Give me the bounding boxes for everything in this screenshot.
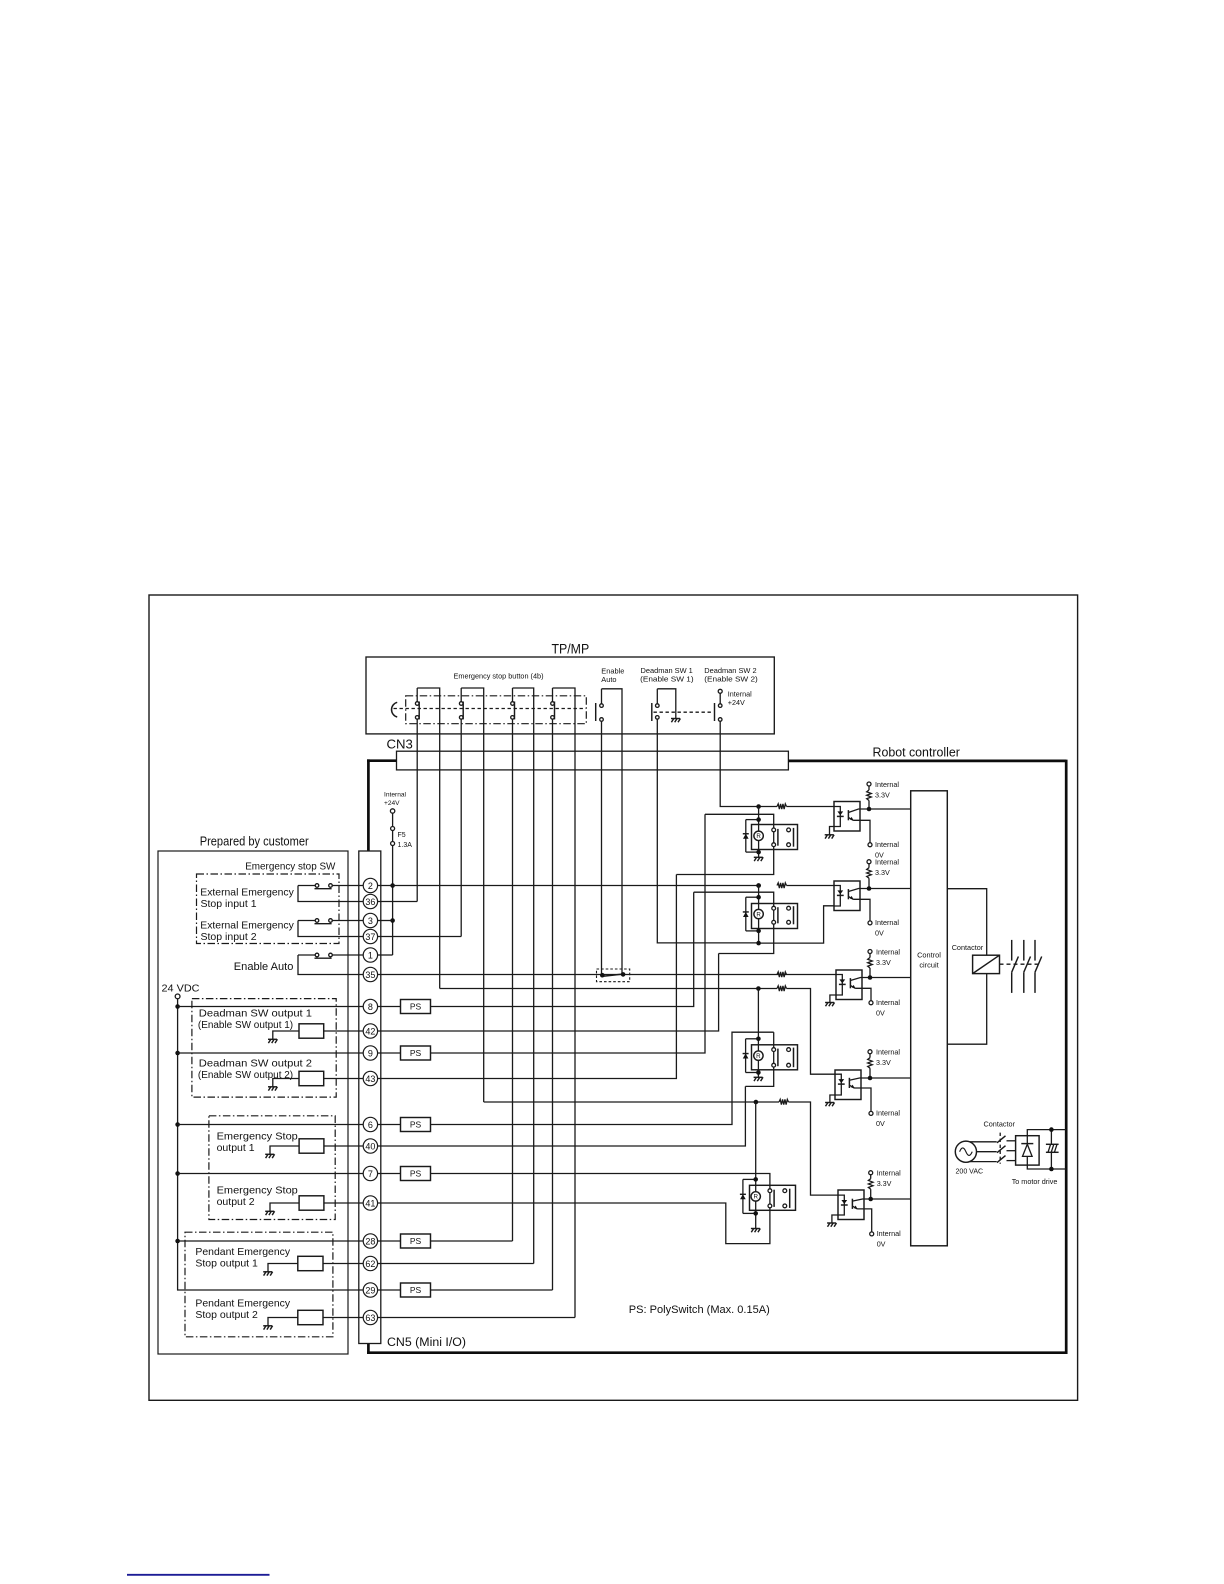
pin 36 (363, 894, 377, 908)
svg-text:35: 35 (365, 970, 375, 980)
svg-text:8: 8 (368, 1002, 373, 1012)
outer figure frame (149, 595, 1078, 1400)
svg-text:Internal: Internal (875, 918, 899, 927)
svg-text:3: 3 (368, 916, 373, 926)
svg-text:1: 1 (368, 950, 373, 960)
wire: U4 (e-stop 1 sense) output to control circuit (870, 1077, 911, 1079)
node Internal 3.3V (U1 (deadman SW2 sense)) (867, 782, 871, 786)
svg-text:PS: PS (410, 1236, 422, 1246)
svg-text:(Enable SW 1): (Enable SW 1) (640, 675, 694, 684)
optocoupler U4 (e-stop 1 sense) (835, 1070, 861, 1100)
svg-text:Pendant Emergency: Pendant Emergency (195, 1246, 290, 1258)
ground (relay K4 coil) (751, 1228, 760, 1230)
wire: pin 29 (after PS) up to e-stop contact 4 (431, 1289, 553, 1291)
load: Emergency Stop output 2 (pin 41) (299, 1196, 324, 1210)
svg-text:24 VDC: 24 VDC (162, 984, 201, 995)
wire: relay K2 contact top to pin 8 column (694, 892, 774, 906)
wire: U3 (enable auto sense) emitter to Internal 0V (855, 988, 871, 1000)
svg-text:Internal: Internal (877, 1169, 901, 1178)
AC source 200 VAC (955, 1141, 976, 1162)
svg-text:36: 36 (365, 897, 375, 907)
pin 9 (363, 1046, 377, 1060)
wire: rail to pin 6 (178, 1124, 364, 1126)
wire: U3 (enable auto sense) output to control circuit (870, 977, 911, 979)
svg-text:1.3A: 1.3A (398, 842, 413, 849)
svg-text:0V: 0V (875, 929, 884, 938)
wire: U1 (deadman SW2 sense) output to control circuit (869, 808, 911, 810)
wire: relay K1 contact bottom to pin 43 column (676, 847, 773, 875)
relay K1 (deadman SW 2) (752, 825, 798, 850)
wire: pin 43 to relay 1 contact bottom (378, 875, 677, 1079)
optocoupler U1 (deadman SW2 sense) (834, 802, 860, 832)
wire: rectifier to motor drive bus (1027, 1130, 1066, 1136)
svg-text:Internal: Internal (876, 1109, 900, 1118)
svg-text:Emergency Stop: Emergency Stop (217, 1185, 298, 1197)
wire: contact 3 bridge (513, 688, 534, 1264)
wire: pin 35 row (enable auto) to opto 3 (378, 974, 836, 976)
svg-text:3.3V: 3.3V (875, 868, 890, 877)
pin 7 (363, 1166, 377, 1180)
svg-text:output 2: output 2 (217, 1196, 255, 1208)
svg-text:29: 29 (365, 1285, 375, 1295)
svg-text:External Emergency: External Emergency (200, 886, 294, 898)
contactor power contacts with AC source (970, 1141, 997, 1143)
mechanical dashed link deadman SW1-SW2 (654, 711, 714, 713)
polyswitch PS (row y=1006.5) (378, 1006, 401, 1008)
pin 6 (363, 1117, 377, 1131)
wire: contact 1 bridge (417, 688, 440, 989)
polyswitch PS (row y=1173.5) (378, 1173, 401, 1175)
wire: pin 62 up to e-stop contact 3 return (378, 1263, 534, 1265)
svg-text:Internal: Internal (384, 792, 407, 799)
load: Deadman SW output 1 (pin 42) (299, 1024, 324, 1038)
wire: U5 (e-stop 2 sense) emitter to Internal 0V (857, 1209, 871, 1232)
svg-text:(Enable SW output 1): (Enable SW output 1) (198, 1020, 293, 1031)
pin 1 (363, 948, 377, 962)
wire: pin 7 (after PS) to relay 4 contact top (431, 1174, 770, 1189)
wire: rail to pin 9 (178, 1052, 364, 1054)
pin 28 (363, 1234, 377, 1248)
wire: pin 9 (after PS) to relay 1 contact top (431, 814, 706, 1053)
wire: U4 (e-stop 1 sense) emitter to Internal 0V (854, 1088, 871, 1111)
svg-text:Contactor: Contactor (984, 1119, 1016, 1128)
svg-text:+24V: +24V (728, 698, 745, 707)
wire: deadman SW2 to relay 1 row (720, 721, 758, 806)
svg-text:3.3V: 3.3V (876, 1058, 891, 1067)
load: Pendant Emergency Stop output 2 (pin 63) (298, 1310, 323, 1324)
wire: opto U5 cathode to ground (832, 1215, 838, 1223)
wire: relay 3 row jog down to opto 4 (787, 989, 836, 1075)
svg-text:Deadman SW output 2: Deadman SW output 2 (199, 1057, 312, 1069)
node Internal 0V (U5 (e-stop 2 sense)) (870, 1232, 874, 1236)
flyback diode (K2 (deadman SW 1)) (746, 896, 759, 898)
svg-text:63: 63 (365, 1313, 375, 1323)
load: Deadman SW output 2 (pin 43) (299, 1071, 324, 1085)
wire: pin 28 (after PS) up to e-stop contact 3 (431, 1240, 513, 1242)
prepared-by-customer box (158, 851, 348, 1354)
connector CN5 strip (359, 851, 381, 1344)
node Internal 3.3V (U2 (deadman SW1 sense)) (867, 860, 871, 864)
wire: opto U1 cathode to ground (830, 827, 835, 835)
wire: pin 3 to +24V rail (378, 920, 393, 922)
svg-text:output 1: output 1 (217, 1142, 255, 1154)
svg-text:Stop input 1: Stop input 1 (201, 898, 257, 910)
node Internal 3.3V (U4 (e-stop 1 sense)) (868, 1050, 872, 1054)
svg-text:62: 62 (365, 1259, 375, 1269)
svg-text:Emergency stop SW: Emergency stop SW (245, 860, 335, 872)
load: Emergency Stop output 1 (pin 40) (299, 1139, 324, 1153)
svg-text:+24V: +24V (384, 800, 400, 807)
switch: External Emergency Stop input 1 (pins 2-36) (332, 885, 363, 887)
ground (opto U1) (825, 834, 834, 836)
svg-text:R: R (756, 911, 761, 918)
emergency stop button contact 4 (552, 688, 554, 702)
contactor main contacts (3-phase) (1000, 963, 1042, 965)
svg-text:PS: PolySwitch (Max. 0.15A): PS: PolySwitch (Max. 0.15A) (629, 1304, 770, 1316)
pin 37 (363, 929, 377, 943)
polyswitch PS (row y=1241) (378, 1240, 401, 1242)
relay K1 (deadman SW 2) contacts (773, 830, 775, 845)
wire: relay K2 contact bottom to pin 42 column (719, 924, 774, 953)
emergency stop button mechanical dashed link (394, 708, 586, 710)
svg-text:circuit: circuit (919, 961, 938, 970)
pin 3 (363, 913, 377, 927)
svg-text:R: R (756, 1053, 761, 1060)
wire: pin 2 to +24V rail and relay 2 row (378, 885, 759, 887)
wire: U5 (e-stop 2 sense) output to control circuit (871, 1198, 911, 1200)
wire: U1 (deadman SW2 sense) emitter to Internal 0V (853, 820, 870, 842)
wire: relay K3 contact top stub (773, 1032, 775, 1048)
svg-text:3.3V: 3.3V (876, 958, 891, 967)
svg-text:Pendant Emergency: Pendant Emergency (195, 1297, 290, 1309)
wire: pin 42 to relay 2 contact bottom (378, 954, 719, 1032)
ground (opto U3) (825, 1002, 834, 1004)
node 24 VDC terminal and rail (178, 999, 364, 1290)
ground (relay K1 coil) (754, 856, 763, 858)
relay K3 (e-stop 1) (752, 1045, 798, 1070)
optocoupler U5 (e-stop 2 sense) (838, 1190, 864, 1220)
svg-text:F5: F5 (398, 832, 406, 839)
pin 43 (363, 1071, 377, 1085)
wire: relay 3 row from e-stop contact 1 (440, 988, 777, 990)
emergency stop button contact 3 (512, 688, 514, 702)
pull-up resistor to Internal 3.3V (U4 (e-stop 1 sense)) (869, 1054, 871, 1058)
wire: U2 (deadman SW1 sense) emitter to Internal 0V (853, 899, 870, 920)
emergency stop button contact 1 (416, 688, 418, 702)
flyback diode (K4 (e-stop 2)) (743, 1178, 756, 1180)
svg-text:200 VAC: 200 VAC (956, 1167, 984, 1176)
svg-text:PS: PS (410, 1002, 422, 1012)
switch: External Emergency Stop input 2 (pins 3-37) (332, 920, 363, 922)
node Internal +24V (TP/MP) (718, 689, 722, 693)
pin 8 (363, 999, 377, 1013)
svg-text:41: 41 (365, 1198, 375, 1208)
svg-text:3.3V: 3.3V (875, 790, 890, 799)
svg-text:CN3: CN3 (387, 737, 413, 752)
dash-dot box: pendant emergency stop outputs (185, 1232, 333, 1337)
svg-text:Auto: Auto (601, 675, 616, 684)
svg-text:Internal: Internal (728, 690, 752, 699)
ground (deadman SW1, in TP/MP) (671, 718, 680, 720)
svg-text:0V: 0V (877, 1240, 886, 1249)
node Internal 0V (U2 (deadman SW1 sense)) (868, 921, 872, 925)
resistor (relay 2 row) (777, 883, 787, 888)
svg-text:Stop output 1: Stop output 1 (195, 1258, 258, 1270)
svg-text:Internal: Internal (877, 1229, 901, 1238)
pull-up resistor to Internal 3.3V (U2 (deadman SW1 sense)) (868, 864, 870, 868)
svg-text:7: 7 (368, 1169, 373, 1179)
relay K3 (e-stop 1) contacts (773, 1050, 775, 1066)
dash-dot box: deadman SW outputs (192, 999, 336, 1098)
optocoupler U2 (deadman SW1 sense) (834, 881, 860, 911)
rectifier (to motor drive) (1016, 1136, 1040, 1165)
wire: relay K2 return junction (759, 906, 834, 943)
relay K4 (e-stop 2) (750, 1185, 796, 1210)
relay K2 (deadman SW 1) (752, 904, 798, 929)
wire: control circuit to contactor coil (947, 889, 986, 956)
flyback diode (K3 (e-stop 1)) (746, 1038, 759, 1040)
ground (relay K3 coil) (754, 1076, 763, 1078)
wire: pin 1 to +24V rail (378, 954, 393, 956)
relay K2 (deadman SW 1) contacts (773, 908, 775, 922)
pin 62 (363, 1256, 377, 1270)
wire: +24V rail (392, 846, 394, 956)
deadman switch SW2 (714, 703, 716, 721)
svg-text:PS: PS (410, 1120, 422, 1130)
svg-text:Enable: Enable (601, 666, 624, 675)
node Internal 0V (U1 (deadman SW2 sense)) (868, 843, 872, 847)
wire: U2 (deadman SW1 sense) output to control circuit (869, 888, 911, 890)
wire: rail to pin 28 (178, 1240, 364, 1242)
wire: pin 36 up to e-stop contact 1 (378, 901, 418, 903)
svg-text:Contactor: Contactor (952, 943, 984, 952)
node Internal 3.3V (U3 (enable auto sense)) (868, 950, 872, 954)
svg-text:To motor drive: To motor drive (1012, 1177, 1058, 1186)
relay K4 (e-stop 2) contacts (769, 1191, 771, 1206)
svg-text:Deadman SW output 1: Deadman SW output 1 (199, 1008, 312, 1020)
svg-text:Stop input 2: Stop input 2 (201, 931, 257, 943)
svg-text:Emergency Stop: Emergency Stop (217, 1131, 298, 1143)
wire: contactor coil return to control circuit (947, 974, 986, 1045)
resistor (relay 4 row) (779, 1099, 789, 1104)
enable auto switch (TP/MP) (595, 703, 597, 721)
wire: rail to pin 8 (178, 1006, 364, 1008)
svg-text:40: 40 (365, 1141, 375, 1151)
wire: pin 8 (after PS) to relay 2 contact top (431, 892, 694, 1006)
surge absorber symbol (1050, 1130, 1052, 1145)
pin 42 (363, 1024, 377, 1038)
wire: relay K3 contact bottom to pin 40 column (745, 1067, 773, 1086)
pin 63 (363, 1310, 377, 1324)
svg-text:3.3V: 3.3V (877, 1179, 892, 1188)
svg-text:R: R (756, 833, 761, 840)
node Internal 0V (U3 (enable auto sense)) (869, 1001, 873, 1005)
wire: rail to pin 7 (178, 1173, 364, 1175)
svg-text:Internal: Internal (875, 780, 899, 789)
pin 29 (363, 1283, 377, 1297)
connector CN3 (397, 751, 789, 770)
svg-text:Enable Auto: Enable Auto (234, 961, 294, 973)
svg-text:37: 37 (365, 932, 375, 942)
enable auto plug (dashed box with jumper) (597, 969, 630, 982)
svg-text:Robot controller: Robot controller (873, 745, 961, 760)
optocoupler U3 (enable auto sense) (836, 970, 862, 1000)
wire: pin 63 up to e-stop contact 4 return (378, 1317, 575, 1319)
svg-text:0V: 0V (876, 1009, 885, 1018)
svg-text:External Emergency: External Emergency (200, 919, 294, 931)
svg-text:Stop output 2: Stop output 2 (195, 1309, 258, 1321)
switch: Enable Auto (pins 1-35) (332, 954, 363, 956)
svg-text:PS: PS (410, 1285, 422, 1295)
polyswitch PS (row y=1124.5) (378, 1124, 401, 1126)
load: Pendant Emergency Stop output 1 (pin 62) (298, 1256, 323, 1270)
svg-text:42: 42 (365, 1026, 375, 1036)
svg-text:R: R (753, 1194, 758, 1201)
wire: pin 40 to relay 3 contact bottom (378, 1086, 746, 1146)
emergency stop button dash-dot boundary (406, 696, 587, 724)
node Internal 0V (U4 (e-stop 1 sense)) (869, 1111, 873, 1115)
wire: relay 4 row from e-stop contact 2 (484, 1101, 779, 1103)
wire: contact 4 bridge (553, 688, 576, 1318)
deadman switch SW1 (651, 703, 653, 721)
wire: pin 6 (after PS) to relay 3 contact top (431, 1032, 774, 1124)
svg-text:43: 43 (365, 1074, 375, 1084)
svg-text:PS: PS (410, 1169, 422, 1179)
wire: deadman SW1 to relay coil return (657, 719, 758, 943)
svg-text:Internal: Internal (876, 947, 900, 956)
svg-text:2: 2 (368, 881, 373, 891)
pull-up resistor to Internal 3.3V (U3 (enable auto sense)) (869, 954, 871, 958)
svg-text:9: 9 (368, 1048, 373, 1058)
svg-text:(Enable SW 2): (Enable SW 2) (704, 675, 758, 684)
ground (opto U4) (825, 1102, 834, 1104)
wire: relay 4 row jog down to opto 5 (789, 1102, 839, 1195)
resistor (enable auto row) (777, 972, 787, 977)
contactor coil box (973, 955, 1000, 973)
pull-up resistor to Internal 3.3V (U5 (e-stop 2 sense)) (870, 1175, 872, 1179)
resistor (relay 3 row) (777, 986, 787, 991)
svg-text:Internal: Internal (875, 840, 899, 849)
dash-dot box: external emergency stop inputs (197, 874, 340, 944)
svg-text:Internal: Internal (875, 858, 899, 867)
svg-text:Internal: Internal (876, 998, 900, 1007)
svg-text:0V: 0V (876, 1119, 885, 1128)
pin 35 (363, 967, 377, 981)
svg-text:Control: Control (917, 951, 941, 960)
dash-dot box: emergency stop outputs (209, 1116, 335, 1220)
svg-text:Emergency stop button (4b): Emergency stop button (4b) (454, 672, 544, 681)
wire: relay 1 row (deadman SW2) with resistor (759, 806, 777, 808)
TP/MP enclosure box (366, 657, 774, 734)
svg-text:TP/MP: TP/MP (552, 642, 590, 657)
wire: contact 2 bridge (461, 688, 484, 1102)
svg-text:Prepared by customer: Prepared by customer (200, 833, 310, 848)
svg-text:28: 28 (365, 1236, 375, 1246)
wire: pin 41 to relay 4 contact bottom (378, 1203, 770, 1244)
polyswitch PS (row y=1290) (378, 1289, 401, 1291)
pin 41 (363, 1196, 377, 1210)
wire: relay K1 contact top to pin 9 column (705, 814, 774, 828)
control circuit box (911, 791, 948, 1246)
svg-text:Internal: Internal (876, 1048, 900, 1057)
wire: opto U4 cathode to ground (830, 1095, 835, 1103)
svg-text:CN5 (Mini I/O): CN5 (Mini I/O) (387, 1335, 466, 1349)
fuse F5 1.3A (392, 829, 394, 844)
pin 40 (363, 1139, 377, 1153)
ground (opto U5) (827, 1222, 836, 1224)
wire: pin 37 up to e-stop contact 2 (378, 936, 462, 938)
emergency stop button contact 2 (460, 688, 462, 702)
svg-text:PS: PS (410, 1048, 422, 1058)
flyback diode (K1 (deadman SW 2)) (746, 819, 759, 821)
polyswitch PS (row y=1053) (378, 1052, 401, 1054)
footer rule (page link underline) (127, 1574, 270, 1576)
resistor (relay 1 row) (777, 804, 787, 809)
pull-up resistor to Internal 3.3V (U1 (deadman SW2 sense)) (868, 786, 870, 790)
svg-text:6: 6 (368, 1120, 373, 1130)
emergency stop button actuator arc (392, 702, 398, 717)
pin 2 (363, 878, 377, 892)
wire: opto U3 cathode to ground (830, 995, 836, 1003)
robot controller enclosure (thick border) (367, 759, 397, 762)
node Internal 3.3V (U5 (e-stop 2 sense)) (869, 1171, 873, 1175)
